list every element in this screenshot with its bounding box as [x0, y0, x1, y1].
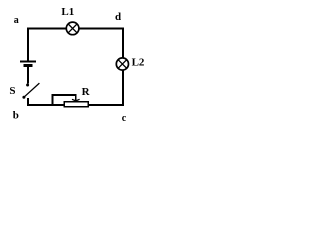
battery cell: short thick negative plate	[24, 64, 33, 67]
wire bottom (b to c)	[27, 104, 124, 106]
wire top (a to d)	[27, 28, 124, 30]
switch S bottom terminal dot	[22, 96, 25, 99]
svg-text:L1: L1	[61, 6, 74, 18]
wire right (d down to c)	[122, 28, 124, 106]
wire left upper (a down to battery)	[27, 28, 29, 62]
wire battery to switch terminal	[27, 67, 29, 84]
battery cell: long positive plate	[20, 61, 36, 63]
switch S top terminal dot	[26, 84, 29, 87]
rheostat wiper bar	[52, 94, 77, 96]
svg-text:L2: L2	[132, 57, 145, 69]
svg-text:c: c	[122, 113, 127, 124]
lamp L1 circle	[66, 22, 79, 35]
svg-text:d: d	[115, 11, 121, 23]
svg-text:b: b	[13, 110, 19, 122]
rheostat wiper arrowhead	[72, 99, 80, 101]
rheostat wiper stem	[75, 95, 77, 101]
rheostat wiper tee riser	[52, 94, 54, 104]
wire switch to bottom-left corner b	[27, 98, 29, 105]
lamp L2 cross	[118, 60, 127, 69]
svg-text:R: R	[82, 86, 91, 98]
svg-text:a: a	[14, 15, 19, 26]
lamp L1 cross	[68, 24, 77, 33]
svg-text:S: S	[9, 85, 15, 97]
resistor R body box	[64, 102, 88, 107]
lamp L2 circle	[116, 58, 128, 70]
switch S blade (open)	[24, 83, 40, 97]
